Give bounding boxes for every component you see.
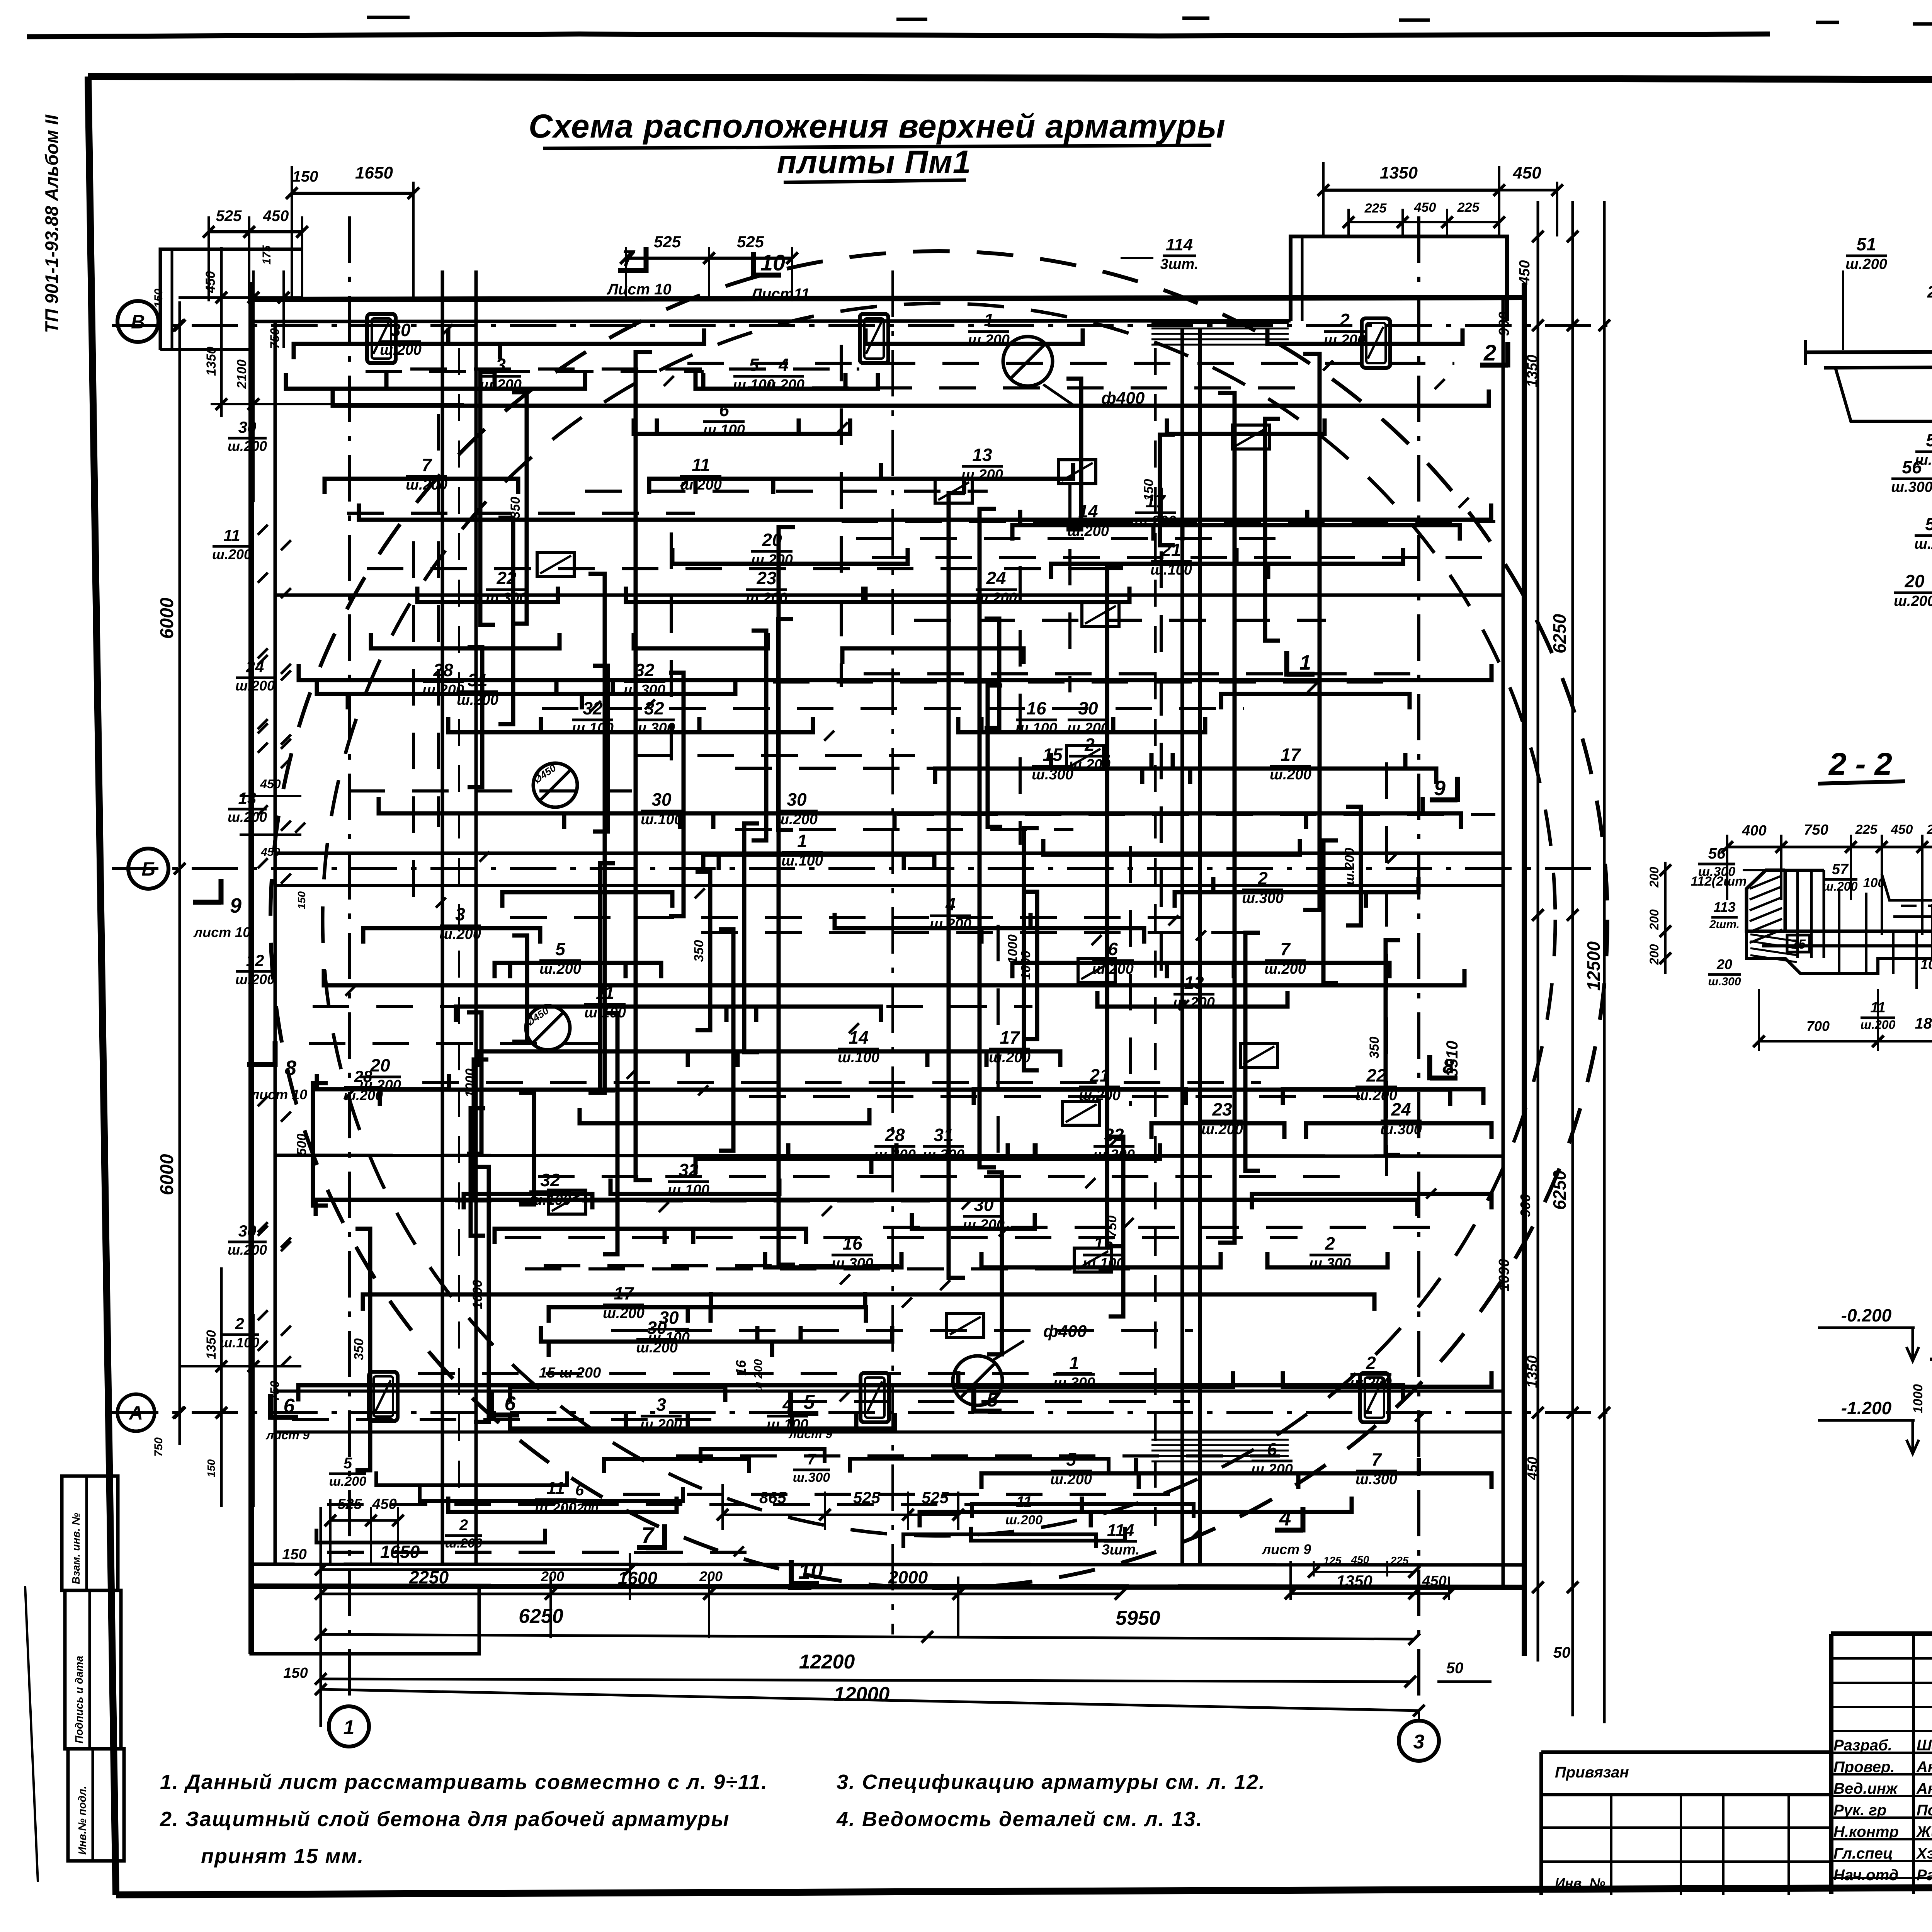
- left chain near А axis: [220, 1267, 223, 1507]
- svg-text:5: 5: [987, 1389, 998, 1411]
- svg-text:ш.200: ш.200: [228, 438, 267, 454]
- svg-text:3: 3: [656, 1395, 666, 1415]
- section mark 6 below axis A mid: [492, 1413, 519, 1418]
- svg-text:32: 32: [540, 1170, 560, 1190]
- svg-text:8: 8: [1442, 1055, 1454, 1078]
- svg-text:21: 21: [1161, 540, 1181, 560]
- section mark 7 / sheet 10 (top): [618, 268, 646, 273]
- svg-text:50: 50: [1553, 1644, 1571, 1661]
- svg-text:ш.200: ш.200: [561, 1501, 598, 1516]
- svg-text:13: 13: [1184, 973, 1204, 993]
- svg-text:11: 11: [546, 1478, 565, 1498]
- svg-text:1000: 1000: [1005, 934, 1020, 964]
- axis circle Б: [128, 849, 168, 889]
- svg-text:ш.300: ш.300: [793, 1470, 830, 1485]
- svg-text:400: 400: [1742, 823, 1766, 839]
- svg-text:Привязан: Привязан: [1555, 1764, 1629, 1781]
- svg-text:ш.200: ш.200: [406, 477, 447, 493]
- svg-text:3шт.: 3шт.: [1102, 1542, 1140, 1558]
- svg-text:450: 450: [1517, 260, 1533, 285]
- svg-text:ш.300: ш.300: [1309, 1255, 1351, 1272]
- svg-text:Андреева: Андреева: [1916, 1759, 1932, 1776]
- svg-text:113: 113: [1713, 899, 1735, 915]
- top mid 525 525 dims: [625, 247, 627, 301]
- svg-text:лист 9: лист 9: [788, 1427, 833, 1441]
- svg-text:17: 17: [614, 1283, 634, 1303]
- svg-text:ш.300: ш.300: [1698, 864, 1735, 879]
- svg-text:1: 1: [1069, 1353, 1079, 1373]
- svg-text:ш.200: ш.200: [235, 678, 275, 694]
- svg-text:114: 114: [1107, 1521, 1134, 1540]
- svg-text:5: 5: [804, 1391, 815, 1413]
- svg-text:2000: 2000: [888, 1567, 928, 1587]
- svg-text:ш.100: ш.100: [838, 1049, 879, 1066]
- axis Б parallel bars: [275, 852, 1503, 855]
- svg-text:23: 23: [1212, 1099, 1232, 1119]
- svg-text:Вед.инж: Вед.инж: [1833, 1780, 1898, 1797]
- svg-text:лист 9: лист 9: [1262, 1541, 1311, 1557]
- axis line 3: [1417, 216, 1420, 1711]
- column opening bottom-right: [1360, 1373, 1389, 1422]
- svg-text:56: 56: [1902, 457, 1922, 477]
- svg-text:Схема расположения верхней: Схема расположения верхней арматуры: [529, 108, 1226, 145]
- svg-text:12000: 12000: [834, 1683, 890, 1706]
- svg-text:450: 450: [1512, 163, 1541, 182]
- svg-text:Лист 10: Лист 10: [606, 281, 671, 298]
- plan bottom-left corner block: [251, 1564, 479, 1654]
- svg-text:900: 900: [1496, 311, 1512, 336]
- section 2-2 slab body: [1785, 930, 1932, 933]
- section mark 5 right: [974, 1409, 1002, 1414]
- svg-text:225: 225: [1457, 200, 1480, 215]
- axis line Б: [112, 867, 1607, 870]
- svg-text:125: 125: [1323, 1554, 1342, 1566]
- sheet outer top edge line: [27, 34, 1770, 37]
- svg-text:6000: 6000: [157, 1154, 177, 1195]
- svg-text:1350: 1350: [1524, 1355, 1541, 1388]
- axis line А: [112, 1411, 1607, 1414]
- svg-text:ш.200: ш.200: [380, 342, 422, 358]
- svg-text:7: 7: [1280, 939, 1291, 959]
- svg-text:17: 17: [1000, 1027, 1020, 1048]
- svg-text:23: 23: [756, 568, 777, 588]
- svg-text:175: 175: [260, 245, 273, 265]
- svg-text:150: 150: [293, 168, 318, 185]
- section 2-2 small trapezoid: [1882, 874, 1932, 900]
- bottom small dims 525 450: [329, 1499, 332, 1565]
- drain circle d450 lower: [526, 1006, 570, 1050]
- svg-text:ш.300: ш.300: [633, 720, 675, 736]
- svg-text:8: 8: [285, 1056, 296, 1080]
- column opening top-left: [367, 314, 396, 363]
- long rebar runs: [298, 352, 1492, 1401]
- svg-text:12: 12: [246, 951, 264, 969]
- bent plate symbols: [537, 425, 1277, 1338]
- section 2-2 top dims: [1726, 835, 1728, 900]
- svg-text:1000: 1000: [1911, 1384, 1925, 1413]
- section mark 9 left: [193, 900, 221, 905]
- svg-text:2: 2: [459, 1517, 468, 1534]
- svg-text:ш.100: ш.100: [1015, 720, 1057, 736]
- svg-text:450: 450: [1524, 1457, 1540, 1480]
- svg-text:150: 150: [152, 289, 165, 308]
- plan slab outline: [251, 298, 1524, 299]
- signature table rows: [1831, 1657, 1932, 1660]
- svg-text:30: 30: [651, 789, 672, 810]
- svg-text:225: 225: [1390, 1554, 1409, 1566]
- svg-text:лист 9: лист 9: [265, 1428, 310, 1442]
- svg-text:6: 6: [719, 400, 729, 420]
- sheet inner frame: [88, 77, 1932, 80]
- svg-text:350: 350: [692, 940, 706, 962]
- svg-text:10: 10: [798, 1559, 823, 1584]
- svg-text:150: 150: [296, 891, 308, 909]
- section mark 7 bottom: [637, 1545, 665, 1550]
- axis circle В: [117, 301, 158, 342]
- svg-text:-1.200: -1.200: [1841, 1398, 1892, 1418]
- axis А parallel bars: [275, 1389, 1503, 1393]
- svg-text:350: 350: [508, 497, 523, 519]
- svg-text:1650: 1650: [355, 163, 393, 182]
- svg-text:2. Защитный слой бетона для ра: 2. Защитный слой бетона для рабочей арма…: [160, 1808, 730, 1831]
- svg-text:900: 900: [1517, 1194, 1533, 1217]
- section mark 8 left: [247, 1062, 275, 1067]
- svg-text:150: 150: [282, 1546, 306, 1563]
- bottom band extra bars: [316, 1449, 1194, 1551]
- svg-text:20: 20: [1716, 956, 1732, 972]
- leader from chain to circle 3: [1418, 1711, 1420, 1720]
- svg-text:ш.200: ш.200: [776, 811, 818, 828]
- svg-text:ш.200: ш.200: [1350, 1375, 1392, 1391]
- svg-text:ш.200: ш.200: [212, 546, 252, 562]
- svg-text:57: 57: [1832, 861, 1849, 878]
- svg-text:-0.200: -0.200: [1841, 1305, 1892, 1325]
- svg-text:2: 2: [1339, 310, 1350, 330]
- svg-text:450: 450: [1351, 1554, 1369, 1566]
- svg-text:750: 750: [1804, 822, 1828, 838]
- drain circle d400 lower with label: [953, 1356, 1002, 1405]
- svg-text:30: 30: [647, 1318, 667, 1338]
- svg-text:6000: 6000: [157, 597, 177, 639]
- svg-text:10: 10: [760, 250, 786, 276]
- svg-text:6: 6: [1108, 939, 1118, 959]
- top-left dimension cluster: [291, 166, 293, 301]
- svg-text:7: 7: [422, 455, 432, 475]
- title block outer: [1831, 1631, 1932, 1636]
- section 2-2 bar с 58: [1893, 915, 1932, 918]
- svg-text:16: 16: [1026, 698, 1046, 718]
- svg-text:11: 11: [223, 526, 240, 544]
- svg-text:9: 9: [1434, 777, 1446, 800]
- svg-text:20: 20: [1904, 571, 1925, 591]
- svg-text:1: 1: [797, 831, 807, 851]
- section mark 8 right: [1430, 1076, 1458, 1081]
- svg-text:32: 32: [634, 660, 655, 680]
- svg-text:225: 225: [1364, 201, 1387, 216]
- svg-text:16: 16: [733, 1360, 749, 1376]
- svg-text:2100: 2100: [235, 359, 249, 389]
- svg-text:6: 6: [505, 1393, 516, 1415]
- column opening top-right: [1362, 318, 1390, 368]
- svg-text:225: 225: [1855, 822, 1878, 837]
- svg-text:Нач.отд: Нач.отд: [1833, 1867, 1898, 1884]
- bottom chain 6250-5950: [321, 1634, 1414, 1639]
- svg-text:ш.200: ш.200: [228, 1242, 267, 1258]
- small dimension ticks field: [295, 324, 1469, 1556]
- svg-text:24: 24: [1391, 1099, 1411, 1119]
- svg-text:Шаболина: Шаболина: [1917, 1737, 1932, 1754]
- axis line 2 center: [891, 270, 894, 1634]
- svg-text:31: 31: [468, 670, 487, 690]
- svg-text:2: 2: [1927, 282, 1932, 301]
- svg-text:ш.200: ш.200: [636, 1340, 678, 1356]
- svg-text:ш.200: ш.200: [603, 1305, 645, 1321]
- svg-text:15 ш 200: 15 ш 200: [539, 1365, 601, 1381]
- svg-text:2: 2: [1325, 1233, 1335, 1253]
- svg-text:5950: 5950: [1116, 1607, 1160, 1629]
- svg-text:А: А: [128, 1402, 143, 1424]
- svg-text:11: 11: [1016, 1493, 1032, 1510]
- svg-text:28: 28: [884, 1125, 905, 1145]
- svg-text:4: 4: [945, 894, 956, 914]
- svg-text:9: 9: [230, 894, 241, 917]
- svg-text:Разраб.: Разраб.: [1833, 1737, 1892, 1754]
- svg-text:1600: 1600: [618, 1568, 658, 1588]
- svg-text:11: 11: [692, 455, 710, 475]
- column opening top-mid: [860, 314, 888, 363]
- svg-text:750: 750: [1105, 1216, 1119, 1238]
- svg-text:1650: 1650: [380, 1542, 420, 1562]
- svg-text:Поваляева: Поваляева: [1917, 1802, 1932, 1819]
- svg-text:5: 5: [555, 939, 566, 959]
- svg-text:200: 200: [1647, 909, 1661, 930]
- svg-text:6: 6: [284, 1395, 295, 1417]
- svg-text:525: 525: [737, 233, 764, 251]
- svg-text:ш.200: ш.200: [968, 332, 1010, 348]
- svg-text:450: 450: [372, 1496, 396, 1512]
- svg-text:ш.200: ш.200: [1324, 332, 1366, 348]
- svg-text:13: 13: [972, 445, 992, 465]
- svg-text:ш.200: ш.200: [329, 1474, 366, 1489]
- svg-text:55: 55: [1925, 514, 1932, 534]
- svg-text:1350: 1350: [1524, 355, 1541, 388]
- bottom chain 12200: [321, 1679, 1410, 1682]
- bottom chain 2250-200-1600-200-2000: [549, 1577, 552, 1638]
- svg-text:525: 525: [337, 1496, 362, 1512]
- svg-text:50: 50: [1446, 1660, 1464, 1677]
- svg-text:450: 450: [203, 271, 218, 294]
- svg-text:ш.300: ш.300: [1891, 479, 1932, 495]
- column strip vertical band right: [1180, 328, 1184, 1564]
- svg-text:ш.200: ш.200: [751, 552, 793, 568]
- svg-text:1: 1: [984, 310, 994, 330]
- svg-text:2: 2: [1483, 340, 1496, 366]
- svg-text:ш.200: ш.200: [1264, 961, 1306, 977]
- svg-text:Андреева: Андреева: [1916, 1780, 1932, 1797]
- section 1-1 slab top line: [1805, 350, 1932, 352]
- svg-text:ш.200: ш.200: [963, 1217, 1005, 1233]
- axis line 1: [348, 216, 351, 1705]
- axis circle А: [117, 1394, 155, 1431]
- left dimension chain vertical: [179, 301, 181, 1445]
- svg-text:525: 525: [216, 207, 242, 224]
- section 2-2 inner verticals: [1838, 889, 1840, 974]
- svg-text:Хэнин: Хэнин: [1916, 1845, 1932, 1862]
- svg-text:3. Спецификацию арматуры см. л: 3. Спецификацию арматуры см. л. 12.: [837, 1770, 1265, 1794]
- svg-text:ш.200: ш.200: [1251, 1461, 1293, 1478]
- svg-text:ш.300: ш.300: [624, 682, 665, 698]
- svg-text:12200: 12200: [799, 1651, 855, 1673]
- svg-text:525: 525: [654, 233, 681, 251]
- svg-text:1800: 1800: [1915, 1015, 1932, 1032]
- svg-text:Провер.: Провер.: [1833, 1759, 1895, 1776]
- svg-text:500: 500: [294, 1134, 309, 1156]
- svg-text:2шт.: 2шт.: [1709, 918, 1740, 931]
- svg-text:56: 56: [1708, 845, 1726, 862]
- drain circle d400 upper with label: [1003, 337, 1053, 386]
- svg-text:865: 865: [759, 1488, 787, 1507]
- svg-text:ш.200: ш.200: [1845, 256, 1887, 272]
- rebar bundle top right: [1151, 322, 1289, 324]
- right dimension chain: [1537, 201, 1539, 1662]
- svg-text:30: 30: [974, 1195, 994, 1215]
- svg-text:1350: 1350: [204, 347, 219, 376]
- section 1-1 left rib trapezoid 53: [1835, 368, 1932, 421]
- svg-text:1. Данный лист рассматривать с: 1. Данный лист рассматривать совместно с…: [160, 1770, 768, 1794]
- svg-text:75: 75: [1791, 937, 1806, 952]
- svg-text:В: В: [131, 311, 145, 333]
- svg-text:2: 2: [235, 1315, 244, 1333]
- svg-text:101: 101: [1920, 956, 1932, 972]
- svg-text:2 - 2: 2 - 2: [1828, 747, 1892, 782]
- svg-text:ш.100: ш.100: [1150, 562, 1192, 578]
- svg-text:17: 17: [1281, 745, 1301, 765]
- svg-text:6250: 6250: [519, 1605, 563, 1628]
- axis circle 1: [329, 1706, 369, 1747]
- svg-text:ш.200: ш.200: [1894, 593, 1932, 609]
- svg-text:450: 450: [1422, 1573, 1446, 1589]
- svg-text:Инв.№ подл.: Инв.№ подл.: [76, 1786, 88, 1855]
- svg-text:51: 51: [1856, 234, 1876, 254]
- bottom dims 865 525 525: [721, 1484, 724, 1530]
- svg-text:7: 7: [1371, 1449, 1382, 1469]
- title block left part: [1541, 1750, 1831, 1754]
- svg-text:Б: Б: [141, 858, 155, 880]
- svg-text:525: 525: [922, 1488, 949, 1507]
- svg-text:ТП 901-1-93.88 Альбом II: ТП 901-1-93.88 Альбом II: [41, 114, 62, 333]
- svg-text:1000: 1000: [470, 1280, 485, 1309]
- svg-text:750: 750: [152, 1437, 165, 1457]
- svg-text:12500: 12500: [1583, 941, 1604, 991]
- svg-text:4: 4: [1279, 1506, 1291, 1530]
- svg-text:350: 350: [1367, 1037, 1382, 1059]
- section 2-2 hatched corner: [1747, 870, 1785, 931]
- svg-text:ш.200: ш.200: [1270, 767, 1311, 783]
- svg-text:Взам. инв. №: Взам. инв. №: [70, 1513, 82, 1584]
- svg-text:1350: 1350: [204, 1330, 219, 1359]
- svg-text:Инв. №: Инв. №: [1555, 1875, 1605, 1891]
- tank wall dashed circle outer: [270, 251, 1607, 1588]
- svg-text:20: 20: [370, 1055, 390, 1075]
- margin box Взам. инв. №: [62, 1476, 118, 1590]
- svg-text:31: 31: [934, 1125, 953, 1145]
- svg-text:ш.200: ш.200: [235, 971, 275, 987]
- svg-text:ш.200: ш.200: [1005, 1513, 1043, 1527]
- svg-text:350: 350: [352, 1338, 366, 1361]
- svg-text:ш.100: ш.100: [703, 422, 745, 438]
- svg-text:114: 114: [1166, 235, 1193, 254]
- mid horizontal beam band: [275, 594, 1503, 597]
- svg-text:200: 200: [541, 1568, 564, 1584]
- svg-text:30: 30: [391, 320, 411, 340]
- svg-text:ш.300: ш.300: [486, 590, 527, 606]
- svg-text:6: 6: [575, 1482, 584, 1499]
- section mark 2 (top right): [1480, 363, 1508, 368]
- section mark 6 below axis A left: [270, 1415, 298, 1420]
- svg-text:Рук. гр: Рук. гр: [1833, 1802, 1886, 1819]
- svg-text:30: 30: [238, 1222, 257, 1240]
- svg-text:ш.200: ш.200: [457, 692, 498, 708]
- section mark 10 / sheet 11 (top): [753, 273, 781, 278]
- svg-text:принят 15 мм.: принят 15 мм.: [201, 1845, 364, 1868]
- svg-text:ш.200: ш.200: [1914, 536, 1932, 552]
- svg-text:ш.200: ш.200: [1342, 848, 1357, 885]
- top-left corner block: [160, 249, 301, 350]
- svg-text:1350: 1350: [1380, 163, 1418, 182]
- svg-text:200: 200: [1647, 867, 1661, 888]
- svg-text:450: 450: [1414, 200, 1436, 215]
- svg-text:ш.200: ш.200: [359, 1077, 401, 1094]
- column opening bottom-mid: [861, 1373, 889, 1422]
- svg-text:лист 10: лист 10: [193, 924, 250, 940]
- svg-text:ш.200: ш.200: [1050, 1471, 1092, 1488]
- column strip vertical band left: [441, 270, 444, 1564]
- svg-text:ш.200: ш.200: [975, 590, 1017, 606]
- plan top-right corner block: [1291, 236, 1507, 321]
- svg-text:3шт.: 3шт.: [1160, 256, 1199, 272]
- svg-text:7: 7: [622, 246, 636, 271]
- svg-text:6250: 6250: [1549, 1170, 1570, 1210]
- svg-text:28: 28: [433, 660, 453, 680]
- margin box Инв. № подл.: [68, 1749, 124, 1861]
- column opening bottom-left: [369, 1372, 398, 1421]
- rebar bundle bottom right: [1151, 1439, 1289, 1441]
- svg-text:200: 200: [699, 1568, 723, 1584]
- svg-text:53: 53: [1926, 430, 1932, 450]
- svg-text:1090: 1090: [1496, 1259, 1512, 1292]
- svg-text:225: 225: [1927, 822, 1932, 837]
- svg-text:ш.100: ш.100: [668, 1182, 709, 1198]
- svg-text:1: 1: [1299, 651, 1311, 674]
- svg-text:700: 700: [1806, 1018, 1830, 1034]
- vertical rebar bars field: [294, 372, 1400, 1470]
- left chain secondary: [220, 247, 223, 417]
- svg-text:ш.300: ш.300: [1355, 1471, 1397, 1488]
- svg-text:150: 150: [205, 1459, 217, 1477]
- svg-text:Подпись и дата: Подпись и дата: [73, 1656, 85, 1743]
- svg-text:ш.200: ш.200: [1201, 1121, 1243, 1138]
- margin slanted sheet edge line: [25, 1586, 38, 1882]
- svg-text:525: 525: [853, 1488, 881, 1507]
- svg-text:ш.200: ш.200: [439, 926, 481, 942]
- svg-text:ш.100: ш.100: [641, 811, 682, 828]
- svg-text:7: 7: [807, 1451, 816, 1468]
- svg-text:ш 200: ш 200: [752, 1359, 765, 1392]
- svg-text:Раздобреев: Раздобреев: [1917, 1867, 1932, 1884]
- svg-text:Н.контр: Н.контр: [1833, 1823, 1899, 1840]
- svg-text:450: 450: [1891, 822, 1913, 837]
- svg-text:плиты Пм1: плиты Пм1: [777, 144, 971, 180]
